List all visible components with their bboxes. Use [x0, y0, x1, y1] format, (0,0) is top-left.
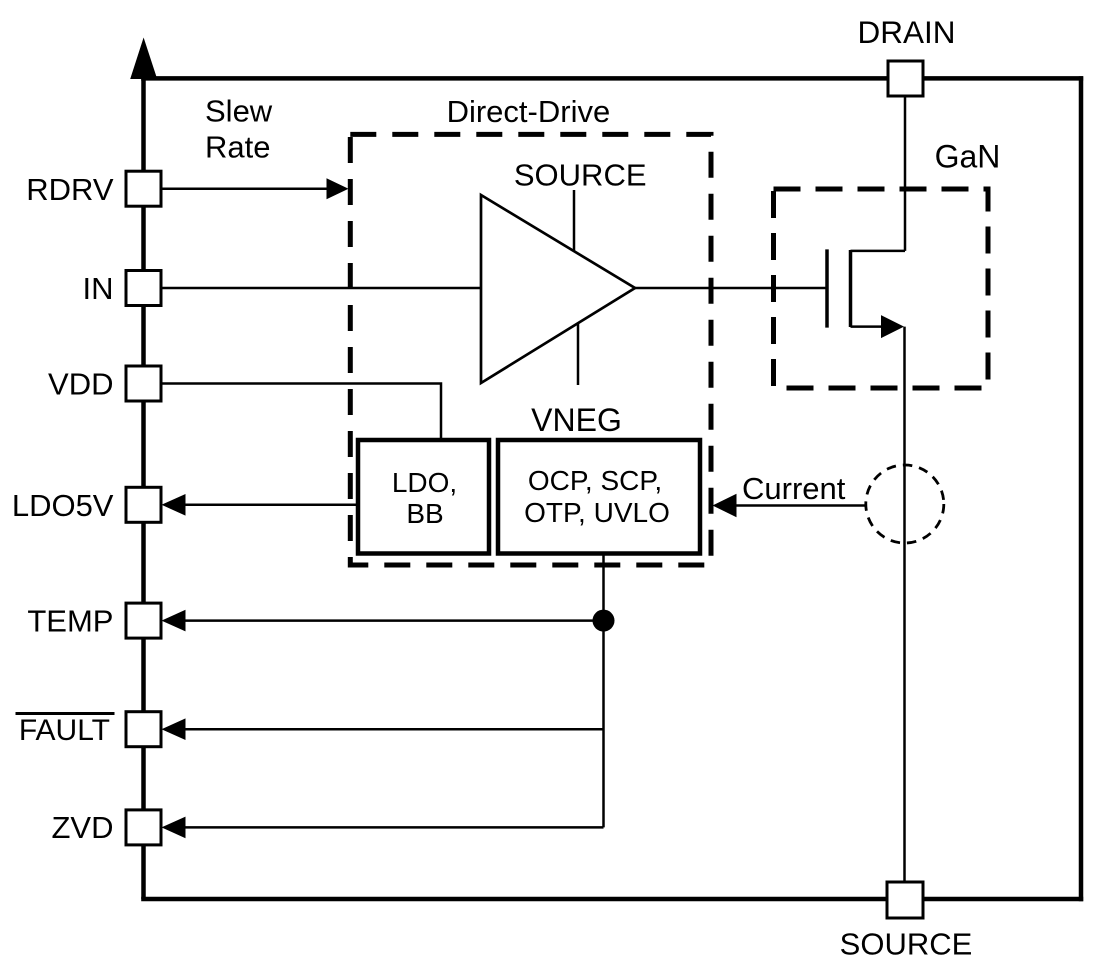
OCP SCP OTP UVLO protection block: [498, 440, 700, 554]
pin RDRV: [126, 171, 161, 206]
current sense circle: [866, 465, 944, 543]
svg-text:OCP, SCP,: OCP, SCP,: [528, 465, 662, 496]
label FAULT with overline: [16, 714, 115, 748]
wire protection block to TEMP pin: [162, 610, 604, 632]
wire protection block to FAULT pin: [162, 718, 604, 740]
pin VDD: [126, 366, 161, 401]
wire transistor source to SOURCE pin: [903, 327, 906, 884]
wire LDO block to LDO5V pin: [162, 494, 363, 516]
wire current sense to protection block: [713, 494, 867, 517]
wire DRAIN pin to transistor drain: [904, 94, 907, 251]
pin SOURCE: [887, 882, 923, 918]
svg-text:LDO,: LDO,: [392, 467, 457, 498]
wire protection block to ZVD pin: [162, 817, 604, 839]
op-amp driver triangle: [481, 195, 635, 383]
svg-text:Slew: Slew: [205, 94, 273, 129]
Direct-Drive dashed box: [350, 134, 711, 565]
svg-text:FAULT: FAULT: [19, 714, 110, 747]
IC boundary top border: [141, 76, 1083, 81]
label Slew Rate: [205, 94, 273, 165]
svg-text:DRAIN: DRAIN: [857, 14, 955, 50]
pin LDO5V: [126, 487, 161, 522]
IC boundary bottom border: [141, 897, 1083, 902]
svg-text:BB: BB: [406, 498, 443, 529]
pin ZVD: [126, 810, 161, 845]
pin DRAIN: [888, 61, 923, 96]
svg-text:LDO5V: LDO5V: [12, 488, 114, 523]
svg-text:TEMP: TEMP: [27, 604, 113, 639]
transistor Q1 GaN FET: [827, 249, 905, 338]
LDO BB block: [358, 440, 489, 554]
svg-text:Rate: Rate: [205, 130, 270, 165]
svg-text:SOURCE: SOURCE: [840, 927, 973, 962]
svg-text:IN: IN: [83, 271, 114, 306]
wire protection status bus (vertical): [602, 551, 605, 827]
svg-text:VDD: VDD: [48, 367, 113, 402]
svg-text:RDRV: RDRV: [26, 172, 114, 207]
svg-text:ZVD: ZVD: [52, 810, 114, 845]
pin TEMP: [126, 603, 161, 638]
IC boundary right border: [1079, 76, 1084, 901]
pin FAULT: [126, 712, 161, 747]
wire VDD to LDO block: [161, 384, 441, 445]
svg-text:Direct-Drive: Direct-Drive: [447, 94, 611, 129]
IC boundary left border / pin bus: [141, 70, 146, 899]
svg-text:SOURCE: SOURCE: [514, 158, 647, 193]
wire SOURCE label to amplifier: [573, 190, 576, 253]
wire IN to amplifier input: [161, 287, 481, 290]
pin IN: [126, 271, 161, 306]
label OCP SCP OTP UVLO: [524, 465, 670, 528]
svg-text:VNEG: VNEG: [531, 402, 622, 438]
wire VNEG label to amplifier: [577, 322, 580, 385]
svg-text:OTP, UVLO: OTP, UVLO: [524, 497, 670, 528]
GaN dashed box: [774, 189, 989, 388]
svg-text:GaN: GaN: [935, 139, 1001, 175]
junction dot at TEMP tap: [593, 610, 615, 632]
wire amplifier output to gate: [634, 287, 826, 290]
svg-text:Current: Current: [742, 471, 846, 506]
label LDO BB: [392, 467, 457, 529]
arrow top of left bus: [130, 38, 157, 80]
wire RDRV to Direct-Drive (slew rate input): [161, 178, 349, 199]
